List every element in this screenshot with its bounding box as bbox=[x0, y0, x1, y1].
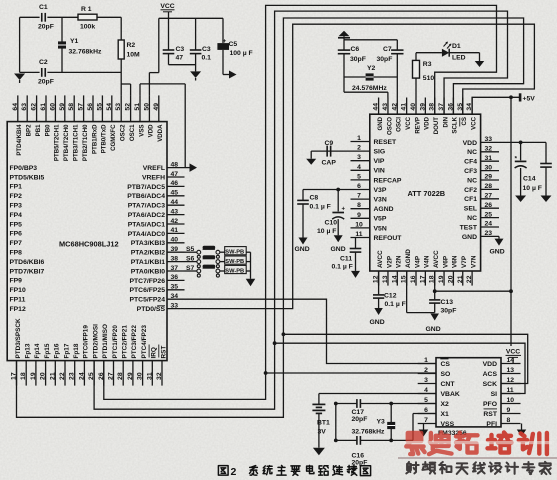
svg-text:GND: GND bbox=[331, 246, 346, 253]
svg-text:PTB2/T1CH0: PTB2/T1CH0 bbox=[82, 124, 89, 161]
svg-text:PTA3/KBI3: PTA3/KBI3 bbox=[131, 240, 165, 247]
svg-text:52: 52 bbox=[125, 103, 132, 111]
svg-text:SCK: SCK bbox=[483, 381, 497, 388]
svg-text:SCLK: SCLK bbox=[452, 116, 459, 133]
svg-text:33: 33 bbox=[485, 136, 493, 143]
svg-text:51: 51 bbox=[134, 103, 141, 111]
svg-text:+5V: +5V bbox=[523, 96, 536, 103]
svg-text:53: 53 bbox=[115, 103, 122, 111]
svg-text:31: 31 bbox=[146, 372, 153, 380]
svg-text:FP4: FP4 bbox=[10, 212, 23, 219]
svg-text:NC: NC bbox=[467, 215, 477, 222]
svg-text:SEL: SEL bbox=[464, 206, 477, 213]
svg-text:0.1 µ F: 0.1 µ F bbox=[385, 301, 406, 308]
svg-text:DIN: DIN bbox=[442, 117, 449, 128]
svg-text:PTC1/FP20: PTC1/FP20 bbox=[112, 325, 119, 359]
svg-text:PTD1/MISO: PTD1/MISO bbox=[102, 324, 109, 358]
svg-text:20pF: 20pF bbox=[38, 24, 54, 31]
svg-text:40: 40 bbox=[410, 103, 417, 111]
svg-text:CAP: CAP bbox=[322, 160, 337, 167]
svg-text:FP7: FP7 bbox=[10, 240, 23, 247]
svg-text:CF1: CF1 bbox=[464, 196, 477, 203]
svg-text:19: 19 bbox=[438, 275, 445, 283]
svg-text:VSS: VSS bbox=[441, 421, 455, 428]
svg-text:57: 57 bbox=[78, 103, 85, 111]
svg-text:10M: 10M bbox=[127, 52, 141, 59]
svg-text:17: 17 bbox=[419, 275, 426, 283]
svg-text:V4N: V4N bbox=[424, 255, 431, 268]
svg-text:60: 60 bbox=[49, 103, 56, 111]
svg-text:29: 29 bbox=[485, 174, 493, 181]
svg-text:29: 29 bbox=[127, 372, 134, 380]
svg-text:20pF: 20pF bbox=[352, 416, 368, 423]
svg-text:6: 6 bbox=[357, 183, 361, 190]
svg-text:30pF: 30pF bbox=[350, 56, 366, 63]
svg-text:42: 42 bbox=[171, 218, 179, 225]
svg-text:RST: RST bbox=[160, 346, 167, 359]
svg-text:25: 25 bbox=[485, 211, 493, 218]
svg-text:RST: RST bbox=[483, 411, 497, 418]
svg-text:AGND: AGND bbox=[374, 206, 394, 213]
svg-text:ACS: ACS bbox=[483, 371, 498, 378]
svg-text:32: 32 bbox=[156, 372, 163, 380]
svg-text:SIG: SIG bbox=[374, 149, 386, 156]
svg-text:PTC7/FP26: PTC7/FP26 bbox=[129, 278, 165, 285]
svg-text:64: 64 bbox=[12, 103, 19, 111]
svg-text:47: 47 bbox=[176, 55, 184, 62]
svg-text:30pF: 30pF bbox=[377, 56, 393, 63]
svg-text:7: 7 bbox=[357, 193, 361, 200]
svg-text:33: 33 bbox=[171, 302, 179, 309]
svg-text:FP9: FP9 bbox=[10, 278, 23, 285]
svg-text:FP12: FP12 bbox=[10, 306, 26, 313]
svg-text:Fp15: Fp15 bbox=[44, 343, 51, 358]
svg-text:13: 13 bbox=[507, 367, 515, 374]
svg-text:C13: C13 bbox=[441, 299, 454, 306]
svg-text:23: 23 bbox=[69, 372, 76, 380]
svg-text:PTC3/FP22: PTC3/FP22 bbox=[131, 325, 138, 359]
svg-text:PTD4/KBI4: PTD4/KBI4 bbox=[16, 124, 23, 156]
svg-text:CS: CS bbox=[441, 361, 451, 368]
svg-text:49: 49 bbox=[153, 103, 160, 111]
svg-text:PTC4/FP23: PTC4/FP23 bbox=[141, 325, 148, 359]
svg-text:C2: C2 bbox=[39, 59, 48, 66]
svg-text:RESET: RESET bbox=[374, 139, 398, 146]
svg-text:Fp17: Fp17 bbox=[63, 343, 70, 358]
svg-text:21: 21 bbox=[457, 275, 464, 283]
svg-text:10: 10 bbox=[355, 221, 363, 228]
svg-text:24: 24 bbox=[78, 372, 85, 380]
svg-text:VCC: VCC bbox=[405, 116, 412, 129]
svg-text:0.1 µ F: 0.1 µ F bbox=[310, 204, 331, 211]
svg-text:FP2: FP2 bbox=[10, 193, 23, 200]
svg-text:20: 20 bbox=[447, 275, 454, 283]
svg-text:Fp18: Fp18 bbox=[73, 343, 80, 358]
svg-text:REFCAP: REFCAP bbox=[374, 177, 402, 184]
svg-text:SI: SI bbox=[491, 391, 498, 398]
svg-text:48: 48 bbox=[171, 161, 179, 168]
svg-text:22: 22 bbox=[59, 372, 66, 380]
svg-text:Y2: Y2 bbox=[367, 65, 376, 72]
svg-text:2: 2 bbox=[231, 466, 237, 478]
svg-text:44: 44 bbox=[373, 103, 380, 111]
svg-text:39: 39 bbox=[419, 103, 426, 111]
svg-text:BT1: BT1 bbox=[317, 420, 330, 427]
svg-text:3: 3 bbox=[424, 377, 428, 384]
svg-text:C16: C16 bbox=[352, 453, 365, 460]
svg-text:10: 10 bbox=[507, 397, 515, 404]
svg-text:C5: C5 bbox=[229, 41, 238, 48]
svg-text:14: 14 bbox=[391, 275, 398, 283]
svg-text:9: 9 bbox=[507, 407, 511, 414]
svg-text:40: 40 bbox=[171, 237, 179, 244]
svg-text:+: + bbox=[223, 38, 227, 45]
svg-text:VDDA: VDDA bbox=[157, 124, 164, 142]
svg-text:VDD: VDD bbox=[483, 361, 497, 368]
svg-text:PTC6/FP25: PTC6/FP25 bbox=[129, 287, 165, 294]
svg-text:24: 24 bbox=[485, 221, 493, 228]
svg-text:43: 43 bbox=[382, 103, 389, 111]
svg-text:V7P: V7P bbox=[461, 255, 468, 268]
svg-text:10 µ F: 10 µ F bbox=[317, 228, 336, 235]
svg-text:PTB6/ADC4: PTB6/ADC4 bbox=[127, 193, 165, 200]
svg-text:0.1: 0.1 bbox=[202, 55, 212, 62]
svg-text:0.1 µ F: 0.1 µ F bbox=[332, 264, 353, 271]
svg-text:PTA2/KBI2: PTA2/KBI2 bbox=[131, 250, 165, 257]
svg-text:VDD: VDD bbox=[463, 140, 477, 147]
svg-text:100k: 100k bbox=[80, 24, 95, 31]
svg-text:PTB5/T2CH1: PTB5/T2CH1 bbox=[54, 124, 61, 161]
svg-text:Y1: Y1 bbox=[70, 38, 79, 45]
svg-text:FP0/BP3: FP0/BP3 bbox=[10, 165, 38, 172]
svg-text:PTB7/ADC5: PTB7/ADC5 bbox=[127, 184, 165, 191]
svg-text:PTD5/KBI5: PTD5/KBI5 bbox=[10, 174, 45, 181]
svg-text:V3N: V3N bbox=[374, 197, 387, 204]
svg-text:30: 30 bbox=[137, 372, 144, 380]
svg-text:NC: NC bbox=[467, 149, 477, 156]
svg-text:CNT: CNT bbox=[441, 381, 456, 388]
svg-text:Fp13: Fp13 bbox=[25, 343, 32, 358]
svg-text:42: 42 bbox=[391, 103, 398, 111]
svg-text:30pF: 30pF bbox=[441, 308, 457, 315]
svg-text:11: 11 bbox=[355, 231, 362, 238]
svg-text:2: 2 bbox=[357, 145, 361, 152]
svg-text:DOUT: DOUT bbox=[433, 117, 440, 135]
svg-text:PTB3/T1CH1: PTB3/T1CH1 bbox=[73, 124, 80, 161]
svg-text:47: 47 bbox=[171, 171, 179, 178]
svg-text:SW-PB: SW-PB bbox=[225, 268, 244, 274]
svg-text:GND: GND bbox=[295, 246, 310, 253]
svg-text:59: 59 bbox=[59, 103, 66, 111]
svg-text:PTB4/T2CH0: PTB4/T2CH0 bbox=[63, 124, 70, 161]
svg-text:V6P: V6P bbox=[442, 255, 449, 268]
svg-text:GND: GND bbox=[426, 326, 441, 333]
svg-text:20: 20 bbox=[40, 372, 47, 380]
svg-text:OSCO: OSCO bbox=[386, 117, 393, 135]
svg-text:36: 36 bbox=[171, 274, 179, 281]
svg-text:SW-PB: SW-PB bbox=[225, 259, 244, 265]
svg-text:32.768kHz: 32.768kHz bbox=[352, 429, 385, 436]
svg-text:1: 1 bbox=[357, 135, 361, 142]
svg-text:Fp16: Fp16 bbox=[54, 343, 61, 358]
svg-text:V2P: V2P bbox=[386, 255, 393, 268]
svg-text:9: 9 bbox=[357, 212, 361, 219]
svg-text:30: 30 bbox=[485, 164, 493, 171]
svg-text:Fp14: Fp14 bbox=[34, 343, 41, 358]
svg-text:GND: GND bbox=[370, 319, 385, 326]
svg-text:27: 27 bbox=[108, 372, 115, 380]
svg-text:16: 16 bbox=[410, 275, 417, 283]
svg-text:V5N: V5N bbox=[374, 225, 387, 232]
svg-text:SO: SO bbox=[441, 371, 451, 378]
svg-text:R2: R2 bbox=[127, 42, 136, 49]
svg-text:31: 31 bbox=[485, 155, 493, 162]
svg-text:IRQ: IRQ bbox=[151, 347, 158, 358]
svg-text:41: 41 bbox=[401, 103, 408, 111]
svg-text:VREFL: VREFL bbox=[143, 165, 165, 172]
svg-text:PTC5/FP24: PTC5/FP24 bbox=[129, 297, 165, 304]
svg-text:V3P: V3P bbox=[374, 187, 387, 194]
svg-text:ATT 7022B: ATT 7022B bbox=[408, 189, 446, 198]
svg-text:62: 62 bbox=[31, 103, 38, 111]
svg-text:CF2: CF2 bbox=[464, 187, 477, 194]
svg-text:C8: C8 bbox=[310, 195, 319, 202]
svg-text:28: 28 bbox=[485, 183, 493, 190]
svg-text:C6: C6 bbox=[351, 46, 360, 53]
svg-text:REVP: REVP bbox=[414, 117, 421, 134]
svg-text:PTC0/FP19: PTC0/FP19 bbox=[83, 325, 90, 359]
svg-text:20pF: 20pF bbox=[38, 79, 54, 86]
svg-text:FP11: FP11 bbox=[10, 297, 26, 304]
svg-text:R3: R3 bbox=[423, 61, 432, 68]
svg-text:V2N: V2N bbox=[396, 255, 403, 268]
svg-text:PTA1/KBI1: PTA1/KBI1 bbox=[131, 259, 165, 266]
svg-text:23: 23 bbox=[485, 230, 493, 237]
svg-text:32.768kHz: 32.768kHz bbox=[69, 49, 102, 56]
svg-text:PTD2/MOSI: PTD2/MOSI bbox=[92, 324, 99, 359]
svg-text:PTD3/SPSCK: PTD3/SPSCK bbox=[15, 318, 22, 359]
svg-text:VDD: VDD bbox=[424, 116, 431, 129]
svg-text:C9: C9 bbox=[325, 140, 334, 147]
svg-text:63: 63 bbox=[21, 103, 28, 111]
svg-text:C1: C1 bbox=[39, 4, 48, 11]
svg-text:VCC: VCC bbox=[160, 3, 174, 10]
svg-text:PTA7/ADC3: PTA7/ADC3 bbox=[128, 203, 165, 210]
svg-text:V5P: V5P bbox=[374, 216, 387, 223]
svg-text:X2: X2 bbox=[441, 401, 450, 408]
svg-text:PTC2/FP21: PTC2/FP21 bbox=[122, 325, 129, 359]
svg-text:PB1: PB1 bbox=[35, 124, 42, 136]
svg-text:56: 56 bbox=[87, 103, 94, 111]
svg-text:+: + bbox=[342, 207, 346, 213]
svg-text:43: 43 bbox=[171, 208, 179, 215]
svg-text:VCC: VCC bbox=[470, 116, 477, 129]
svg-text:OSCI: OSCI bbox=[396, 117, 403, 132]
svg-text:32: 32 bbox=[485, 146, 493, 153]
svg-text:C7: C7 bbox=[383, 46, 392, 53]
svg-text:C17: C17 bbox=[352, 409, 365, 416]
svg-text:GND: GND bbox=[462, 234, 477, 241]
svg-text:54: 54 bbox=[106, 103, 113, 111]
svg-text:VREFH: VREFH bbox=[142, 174, 165, 181]
svg-text:VSS: VSS bbox=[138, 125, 145, 137]
svg-text:C3: C3 bbox=[176, 46, 185, 53]
svg-text:D1: D1 bbox=[452, 43, 461, 50]
svg-text:3V: 3V bbox=[318, 429, 327, 436]
svg-text:AVCC: AVCC bbox=[433, 250, 440, 268]
svg-text:X1: X1 bbox=[441, 411, 450, 418]
svg-text:PTA6/ADC2: PTA6/ADC2 bbox=[128, 212, 165, 219]
svg-text:VDD: VDD bbox=[148, 124, 155, 137]
svg-text:PTD0/SS: PTD0/SS bbox=[137, 306, 166, 313]
svg-text:VCC: VCC bbox=[506, 349, 520, 356]
svg-text:26: 26 bbox=[485, 202, 493, 209]
svg-text:CF3: CF3 bbox=[464, 168, 477, 175]
svg-text:CS: CS bbox=[461, 117, 468, 125]
svg-text:5: 5 bbox=[357, 173, 361, 180]
svg-text:VBAK: VBAK bbox=[441, 391, 460, 398]
svg-text:38: 38 bbox=[171, 255, 179, 262]
svg-text:45: 45 bbox=[171, 190, 179, 197]
svg-text:34: 34 bbox=[171, 293, 179, 300]
svg-text:41: 41 bbox=[171, 227, 179, 234]
svg-text:PB0: PB0 bbox=[44, 124, 51, 136]
svg-text:58: 58 bbox=[68, 103, 75, 111]
svg-text:PFO: PFO bbox=[483, 401, 497, 408]
svg-text:55: 55 bbox=[96, 103, 103, 111]
svg-text:100 µ F: 100 µ F bbox=[230, 50, 253, 57]
svg-text:3: 3 bbox=[357, 154, 361, 161]
svg-text:PTD7/KBI7: PTD7/KBI7 bbox=[10, 268, 45, 275]
svg-text:21: 21 bbox=[49, 372, 56, 380]
svg-text:PTD6/KBI6: PTD6/KBI6 bbox=[10, 259, 45, 266]
svg-text:35: 35 bbox=[171, 284, 179, 291]
svg-text:7: 7 bbox=[424, 417, 428, 424]
svg-text:V7N: V7N bbox=[470, 255, 477, 268]
svg-text:FP5: FP5 bbox=[10, 221, 23, 228]
svg-text:AGND: AGND bbox=[405, 249, 412, 268]
svg-text:PTB1/RxD: PTB1/RxD bbox=[91, 124, 98, 154]
svg-text:8: 8 bbox=[507, 417, 511, 424]
svg-text:PTA4/ADC0: PTA4/ADC0 bbox=[128, 231, 165, 238]
svg-text:50: 50 bbox=[143, 103, 150, 111]
svg-text:27: 27 bbox=[485, 193, 493, 200]
svg-text:CF4: CF4 bbox=[464, 159, 477, 166]
svg-text:C11: C11 bbox=[340, 256, 352, 263]
svg-text:19: 19 bbox=[30, 372, 37, 380]
svg-text:13: 13 bbox=[382, 275, 389, 283]
svg-text:REFOUT: REFOUT bbox=[374, 235, 403, 242]
svg-text:V6N: V6N bbox=[452, 255, 459, 268]
svg-text:61: 61 bbox=[40, 103, 47, 111]
svg-text:44: 44 bbox=[171, 199, 179, 206]
svg-text:C3: C3 bbox=[202, 46, 211, 53]
svg-text:510: 510 bbox=[423, 75, 435, 82]
svg-text:VIN: VIN bbox=[374, 168, 385, 175]
svg-text:SW-PB: SW-PB bbox=[225, 250, 244, 256]
svg-text:GND: GND bbox=[490, 249, 505, 256]
svg-text:C14: C14 bbox=[523, 176, 536, 183]
svg-text:PFI: PFI bbox=[486, 421, 497, 428]
svg-text:LED: LED bbox=[452, 55, 466, 62]
svg-text:FP10: FP10 bbox=[10, 287, 26, 294]
svg-text:8: 8 bbox=[357, 202, 361, 209]
svg-text:46: 46 bbox=[171, 180, 179, 187]
svg-text:37: 37 bbox=[171, 265, 179, 272]
svg-text:Y3: Y3 bbox=[377, 419, 386, 426]
svg-text:PTB0/TxD: PTB0/TxD bbox=[101, 124, 108, 153]
svg-text:FP6: FP6 bbox=[10, 231, 23, 238]
svg-text:PTA0/KBI0: PTA0/KBI0 bbox=[131, 268, 165, 275]
svg-text:CGMXFC: CGMXFC bbox=[110, 124, 117, 151]
svg-text:VIP: VIP bbox=[374, 158, 385, 165]
svg-text:22: 22 bbox=[466, 275, 473, 283]
svg-text:PTA5/ADC1: PTA5/ADC1 bbox=[128, 221, 165, 228]
svg-text:18: 18 bbox=[20, 372, 27, 380]
svg-text:OSC2: OSC2 bbox=[120, 124, 127, 141]
svg-text:C10: C10 bbox=[325, 220, 338, 227]
svg-text:OSC1: OSC1 bbox=[129, 124, 136, 141]
svg-text:NC: NC bbox=[467, 177, 477, 184]
svg-text:TEST: TEST bbox=[460, 224, 478, 231]
svg-text:24.576MHz: 24.576MHz bbox=[352, 85, 387, 92]
svg-text:39: 39 bbox=[171, 246, 179, 253]
svg-text:BP2: BP2 bbox=[26, 124, 33, 136]
svg-text:FP8: FP8 bbox=[10, 250, 23, 257]
svg-text:AVCC: AVCC bbox=[377, 250, 384, 268]
svg-text:10 µ F: 10 µ F bbox=[523, 185, 542, 192]
svg-text:4: 4 bbox=[357, 164, 361, 171]
svg-text:V4P: V4P bbox=[414, 255, 421, 268]
svg-text:FP1: FP1 bbox=[10, 184, 23, 191]
svg-text:R 1: R 1 bbox=[81, 6, 92, 13]
svg-text:C12: C12 bbox=[384, 293, 397, 300]
svg-text:FP3: FP3 bbox=[10, 203, 23, 210]
svg-text:GND: GND bbox=[377, 116, 384, 130]
svg-text:MC68HC908LJ12: MC68HC908LJ12 bbox=[59, 240, 119, 249]
svg-text:28: 28 bbox=[117, 372, 124, 380]
